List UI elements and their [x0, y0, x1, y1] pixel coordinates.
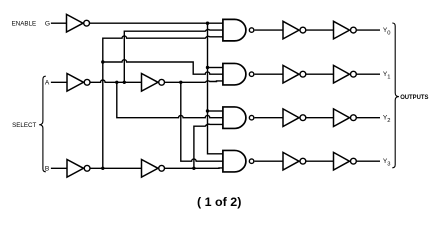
inverter A second — [142, 74, 159, 92]
wire row2 mid — [306, 117, 333, 119]
wire G to NAND2 top input — [208, 110, 223, 112]
brace for OUTPUTS — [392, 23, 399, 168]
svg-text:( 1 of 2): ( 1 of 2) — [197, 195, 241, 209]
inverter row3 second — [334, 152, 350, 170]
inverter row1 second — [334, 65, 350, 83]
NAND gate 3 — [223, 150, 246, 172]
svg-text:SELECT: SELECT — [12, 122, 36, 129]
inverter row1 first — [283, 65, 299, 83]
wire NAND1 output — [255, 73, 283, 75]
wire G to NAND1 top input — [208, 67, 223, 69]
bubble inverter row0 first — [300, 27, 306, 33]
bubble of NAND 2 — [249, 115, 254, 120]
wire B up-feed to NAND2 bottom input (hop over G vertical, step up) — [194, 124, 223, 168]
wire A input — [51, 81, 67, 83]
svg-text:3: 3 — [387, 162, 390, 168]
inverter B second — [142, 160, 159, 178]
wire NAND3 output — [255, 160, 283, 162]
wire B row to NAND3 bottom input — [165, 167, 223, 169]
bubble inverter row2 second — [351, 115, 357, 121]
inverter row3 first — [283, 152, 299, 170]
bubble of NAND 1 — [249, 72, 254, 77]
wire row0 mid — [306, 29, 333, 31]
bubble inverter row0 second — [351, 27, 357, 33]
wire NAND2 output — [255, 117, 283, 119]
wire to Y1 — [357, 73, 380, 75]
svg-text:OUTPUTS: OUTPUTS — [400, 94, 429, 101]
bubble of inverter B first — [84, 165, 90, 171]
bubble of inverter A first — [84, 79, 90, 85]
inverter A first — [67, 74, 84, 92]
inverter row2 first — [283, 109, 299, 127]
NAND gate 0 — [223, 19, 246, 40]
wire to Y3 — [357, 160, 380, 162]
node A to NAND3 branch — [179, 81, 182, 84]
wire row1 mid — [306, 73, 333, 75]
wire G vertical feed — [208, 23, 223, 154]
svg-text:1: 1 — [387, 75, 390, 81]
inverter row0 second — [334, 21, 350, 39]
svg-text:0: 0 — [387, 30, 390, 36]
wire G input — [51, 22, 67, 24]
bubble of inverter B second — [159, 165, 165, 171]
node G feed junction — [206, 22, 209, 25]
wire Bbar row — [90, 167, 141, 169]
node G to NAND2 — [206, 109, 209, 112]
wire to Y2 — [357, 117, 380, 119]
bubble inverter row3 second — [351, 158, 357, 164]
brace for SELECT — [39, 76, 46, 172]
bubble of inverter G — [84, 20, 90, 26]
wire Bbar vertical up (hop handled on A row) — [103, 36, 223, 168]
bubble inverter row2 first — [300, 115, 306, 121]
svg-text:ENABLE: ENABLE — [12, 21, 37, 28]
wire Abar row (hop over B-bar vertical) — [90, 80, 141, 82]
node Bbar up branch — [101, 167, 104, 170]
wire A row to NAND1 bottom input (hop over G vertical, step up) — [165, 81, 223, 82]
NAND gate 2 — [223, 107, 246, 129]
wire Abar up-feed to NAND0 middle input — [124, 30, 223, 83]
node Abar to NAND0 branch — [123, 81, 126, 84]
bubble inverter row1 second — [351, 71, 357, 77]
wire A down-feed to NAND3 middle input (hop over B vertical) — [181, 82, 223, 161]
inverter B first — [67, 160, 84, 178]
bubble of inverter A second — [159, 79, 165, 85]
bubble of NAND 3 — [249, 159, 254, 164]
svg-text:2: 2 — [387, 118, 390, 124]
wire Abar down-feed to NAND2 middle input — [117, 82, 223, 117]
svg-text:B: B — [45, 166, 50, 173]
wire row3 mid — [306, 160, 333, 162]
wire to Y0 — [357, 29, 380, 31]
bubble inverter row3 first — [300, 158, 306, 164]
inverter row0 first — [283, 21, 299, 39]
node Abar to NAND2 branch — [115, 81, 118, 84]
node Bbar to NAND1 branch — [101, 60, 104, 63]
svg-text:G: G — [45, 21, 50, 28]
wire B input — [51, 167, 67, 169]
inverter G (enable buffer) — [67, 14, 84, 32]
bubble of NAND 0 — [249, 28, 254, 32]
wire NAND0 output — [255, 29, 283, 31]
wire Bbar to NAND1 middle input (hop over Abar vertical, step down, hop over G vertical) — [103, 60, 223, 74]
node G to NAND1 — [206, 66, 209, 69]
wire G row to NAND0 top input — [90, 22, 223, 24]
bubble inverter row1 first — [300, 71, 306, 77]
svg-text:A: A — [45, 80, 50, 87]
node B to NAND2 branch — [192, 167, 195, 170]
NAND gate 1 — [223, 63, 246, 84]
inverter row2 second — [334, 109, 350, 127]
